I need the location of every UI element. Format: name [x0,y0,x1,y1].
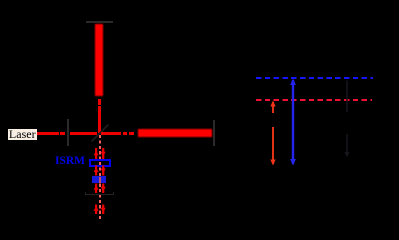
arrow pair 3 [93,183,107,194]
vertical red beam solid to junction [98,106,101,133]
black label patch over faint arrow [342,112,352,134]
arrow pair 1 up arrow [93,147,107,160]
arrow pair 2 [93,165,107,176]
Laser label [8,128,38,140]
vertical dashed red line below junction [99,135,101,219]
holder left tick [85,192,86,195]
thick vertical red beam (cavity arm up) [95,24,103,96]
blue double arrow [288,78,298,166]
bottom holder line [85,194,114,195]
ISRM label [55,156,85,167]
red double arrow [268,100,278,166]
arrow pair 4 [93,204,107,215]
horizontal thin beam seg 1 [37,132,59,135]
vertical red beam dash below thick bar [98,99,101,106]
pink dash over filled rect [99,177,101,183]
horizontal beam dash [129,132,134,135]
hollow blue rectangle (ISRM) [89,159,112,167]
faint black arrow [342,80,352,158]
horizontal beam dash [123,132,128,135]
filled blue rectangle [92,176,106,183]
horizontal thin beam dash 2 [60,132,65,135]
horizontal thin beam seg 3 [70,132,98,135]
blue dashed level line [256,77,373,79]
top mirror [86,21,113,23]
lens (input mirror) [67,119,69,146]
horizontal beam after BS seg [101,132,122,135]
thick horizontal red beam (cavity arm right) [138,129,212,136]
Laser box [8,129,38,141]
black label patch over red arrow [268,113,278,127]
right mirror [213,120,215,146]
holder right tick [113,192,114,195]
red dashed level line [256,99,372,101]
beamsplitter diagonal [88,121,112,145]
